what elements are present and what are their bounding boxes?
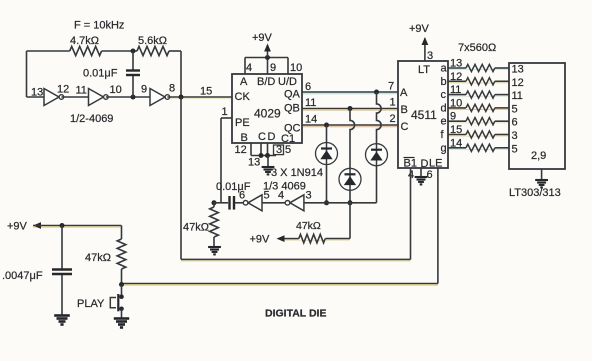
wire left vertical of feedback loop [27, 51, 45, 97]
label QA pin [284, 89, 301, 101]
label pin 11 QB [305, 97, 316, 109]
label segment d [441, 102, 447, 114]
label pin 6 [305, 81, 311, 93]
wire QC pin14 to 4511 C [302, 124, 398, 126]
svg-text:4029: 4029 [254, 107, 281, 121]
label 0.01uF C1 [83, 68, 118, 80]
label 4029 [254, 107, 281, 121]
label PLAY [77, 298, 105, 310]
label segment g [441, 142, 447, 154]
switch S1 PLAY pushbutton [110, 294, 123, 311]
ground under 4511 [415, 177, 428, 184]
label display pin 5 [512, 143, 518, 155]
svg-text:3: 3 [512, 130, 518, 142]
node jam bracket junction 2 [265, 153, 270, 158]
svg-text:B: B [401, 104, 408, 116]
wire D pin to ground [420, 168, 422, 176]
label pin 1 [222, 106, 228, 118]
label pin 9 4511 right [450, 111, 456, 123]
label pin 6 inv [239, 190, 245, 202]
power +9V stem over 4029 [264, 44, 271, 58]
label pin 11 [76, 85, 87, 97]
wire switch to ground [121, 309, 123, 318]
label C 4511 [401, 121, 409, 133]
svg-text:U/D: U/D [278, 76, 297, 88]
svg-text:8: 8 [169, 83, 175, 95]
svg-text:2,9: 2,9 [531, 150, 546, 162]
label segment c [441, 89, 447, 101]
svg-text:3 X 1N914: 3 X 1N914 [271, 167, 323, 179]
wire top feedback rail [27, 50, 70, 52]
label display pin 6 [512, 117, 518, 129]
label C bottom pin [258, 131, 266, 143]
svg-text:11: 11 [512, 90, 523, 102]
node QA diode tap [374, 90, 379, 95]
svg-text:10: 10 [110, 84, 122, 96]
label pin 9 top [270, 62, 276, 74]
label pin 7 [388, 81, 394, 93]
op-amp inverter U1c [150, 89, 170, 106]
svg-text:7x560Ω: 7x560Ω [458, 42, 496, 54]
svg-text:14: 14 [305, 114, 317, 126]
resistor R1 4.7k&#937; [70, 46, 102, 55]
label PE pin [235, 117, 250, 129]
diode D2 1N914 [366, 144, 388, 166]
svg-text:B: B [241, 132, 248, 144]
svg-text:6: 6 [239, 190, 245, 202]
ground under switch [114, 319, 129, 328]
label 47k R3 [183, 222, 209, 234]
svg-text:6: 6 [305, 81, 311, 93]
svg-text:4: 4 [278, 190, 284, 202]
svg-text:QB: QB [284, 103, 300, 115]
wire U1a out to U1b in [61, 96, 89, 98]
node +9V bracket junction [265, 55, 270, 60]
svg-text:12: 12 [235, 144, 247, 156]
capacitor C2 0.01uF [230, 196, 246, 210]
node junction R1/R2/C1 [131, 49, 136, 54]
label pin 12 bottom [235, 144, 247, 156]
svg-text:C: C [258, 131, 266, 143]
svg-text:3: 3 [306, 190, 312, 202]
svg-text:+9V: +9V [252, 32, 273, 44]
svg-text:CK: CK [235, 91, 251, 103]
svg-text:5: 5 [512, 143, 518, 155]
svg-text:.0047μF: .0047μF [2, 270, 43, 282]
label pin 12 [57, 84, 69, 96]
label segment b [441, 76, 447, 88]
label F = 10kHz [74, 20, 124, 32]
label B/D pin [257, 76, 275, 88]
label pin 15 [200, 86, 212, 98]
resistor R9 560&#937; segment e [448, 118, 509, 125]
node C3 tap [60, 223, 65, 228]
wire D3 to AND node [349, 190, 351, 203]
svg-text:0.01μF: 0.01μF [216, 181, 251, 193]
op-amp inverter U1b [89, 89, 109, 106]
label pin 11 4511 right [450, 84, 461, 96]
wire +9V rail left [33, 225, 122, 227]
power +9V arrow mid [250, 234, 285, 246]
label QB pin [284, 103, 300, 115]
node C2/47k junction [212, 200, 217, 205]
label pin 3 LT [427, 50, 433, 62]
svg-text:15: 15 [200, 86, 212, 98]
svg-text:11: 11 [305, 97, 316, 109]
wire display common to ground [541, 169, 543, 179]
node jam bracket junction 1 [259, 153, 264, 158]
label LE pin [429, 158, 442, 170]
svg-text:12: 12 [57, 84, 69, 96]
svg-text:5.6kΩ: 5.6kΩ [138, 35, 167, 47]
node PLAY junction [119, 282, 124, 287]
svg-text:2: 2 [390, 113, 396, 125]
svg-text:6: 6 [427, 169, 433, 181]
label pin 5 inv [264, 190, 270, 202]
svg-text:1: 1 [390, 97, 396, 109]
svg-text:C: C [401, 121, 409, 133]
label pin 4 inv [278, 190, 284, 202]
svg-text:12: 12 [512, 77, 524, 89]
label pin 14 QC [305, 114, 317, 126]
label pin 10 [110, 84, 122, 96]
label DIGITAL DIE [265, 308, 326, 320]
wire LE latch line [122, 168, 438, 284]
label 5.6k&#937; [138, 35, 167, 47]
label pin 4 [246, 62, 252, 74]
svg-text:B/D: B/D [257, 76, 275, 88]
label pin 9 [141, 84, 147, 96]
svg-text:e: e [441, 116, 447, 128]
svg-text:F = 10kHz: F = 10kHz [74, 20, 124, 32]
wire 4029 bottom jam bracket [251, 143, 276, 156]
power label +9V left [7, 221, 28, 233]
wire between R1 and R2 [102, 50, 137, 52]
node QC diode tap [324, 123, 329, 128]
svg-text:g: g [441, 142, 447, 154]
power +9V stem over 4511 [422, 37, 429, 61]
label display pin 5 [512, 103, 518, 115]
svg-text:9: 9 [141, 84, 147, 96]
svg-text:a: a [441, 63, 448, 75]
label display pin 11 [512, 90, 523, 102]
resistor R11 560&#937; segment g [448, 144, 509, 151]
IC U2 4029 box [232, 74, 302, 143]
svg-text:LT: LT [418, 64, 430, 76]
wire AND bus to D2 corner [304, 202, 377, 204]
svg-text:LT303/313: LT303/313 [509, 187, 561, 199]
wire U1c out to CK [167, 96, 232, 98]
power +9V arrow left [33, 222, 41, 229]
power label +9V over 4029 [252, 32, 273, 44]
label pin 15 4511 right [450, 124, 462, 136]
wire AND node down to 47k pullup [349, 203, 351, 239]
wire jam bracket to ground [267, 156, 269, 167]
ground under display [535, 180, 548, 187]
resistor R10 47k [117, 226, 126, 285]
display DS1 box [509, 63, 565, 169]
label B1 bar pin [404, 158, 417, 170]
node AND junction at D1 [324, 200, 329, 205]
label LT pin [418, 64, 430, 76]
capacitor C3 .0047uF [52, 226, 72, 316]
resistor R10 560&#937; segment f [448, 131, 509, 138]
wire QB pin11 to 4511 B [302, 108, 398, 110]
label pin 2 left [390, 113, 396, 125]
label pin 5 bottom [285, 144, 291, 156]
label B bottom pin [241, 132, 248, 144]
svg-text:5: 5 [512, 103, 518, 115]
label pin 8 [169, 83, 175, 95]
wire PE pin 1 [221, 118, 232, 203]
label QC pin [284, 123, 301, 135]
svg-text:47kΩ: 47kΩ [183, 222, 209, 234]
label segment e [441, 116, 447, 128]
resistor R5 560&#937; segment a [448, 64, 509, 71]
svg-text:47kΩ: 47kΩ [296, 220, 321, 232]
op-amp inverter U1a [44, 89, 64, 106]
diode D3 1N914 [339, 168, 361, 190]
svg-text:c: c [441, 89, 447, 101]
label 47k R4 [296, 220, 321, 232]
wire B1 feedback line [181, 97, 411, 259]
resistor R8 560&#937; segment d [448, 104, 509, 111]
svg-text:0.01μF: 0.01μF [83, 68, 118, 80]
svg-text:+9V: +9V [250, 234, 271, 246]
label display pin 13 [512, 64, 524, 76]
wire U1d to U1e [262, 202, 288, 204]
wire U1b out to U1c in [106, 96, 150, 98]
diode D1 1N914 [316, 143, 338, 165]
svg-text:5: 5 [264, 190, 270, 202]
wire QA tap down to D2 with hops [377, 92, 382, 144]
label 4.7k&#937; [70, 35, 99, 47]
power label +9V over 4511 [409, 23, 430, 35]
wire node to C2 [214, 202, 228, 204]
svg-text:B1: B1 [404, 158, 417, 170]
node QB diode tap [348, 106, 353, 111]
svg-text:1/2-4069: 1/2-4069 [70, 113, 113, 125]
svg-text:PE: PE [235, 117, 250, 129]
node junction C1 bottom [131, 95, 136, 100]
svg-text:+9V: +9V [409, 23, 430, 35]
resistor R7 560&#937; segment c [448, 91, 509, 98]
ground under 4029 [262, 167, 275, 174]
label pin 14 4511 right [450, 137, 462, 149]
label 47k R10 [85, 252, 111, 264]
wire QA pin6 to 4511 A [302, 91, 398, 93]
label C1 bottom pin [281, 133, 295, 145]
label U/D pin [278, 76, 297, 88]
label D pin 4511 [421, 158, 429, 170]
label 0.01uF C2 [216, 181, 251, 193]
label pin 13 4511 right [450, 58, 462, 70]
label pin 10 4511 right [450, 97, 462, 109]
op-amp inverter U1e [285, 195, 304, 211]
svg-text:11: 11 [76, 85, 87, 97]
label pin 13 bottom [248, 157, 260, 169]
wire D2 to AND node corner [376, 166, 378, 203]
svg-text:3: 3 [276, 144, 282, 156]
label .0047uF [2, 270, 43, 282]
label pin 1 left [390, 97, 396, 109]
wire node to switch [121, 285, 123, 297]
svg-text:PLAY: PLAY [77, 298, 105, 310]
svg-text:D: D [268, 131, 276, 143]
resistor R2 5.6k&#937; [137, 46, 169, 55]
label 4511 [411, 108, 437, 122]
svg-text:A: A [400, 87, 408, 99]
label A 4511 [400, 87, 408, 99]
ground under C3 [54, 316, 70, 325]
resistor R3 47k vertical [210, 203, 219, 246]
svg-text:13: 13 [248, 157, 260, 169]
svg-text:4.7kΩ: 4.7kΩ [70, 35, 99, 47]
label pin 10 top [290, 62, 302, 74]
resistor R6 560&#937; segment b [448, 78, 509, 85]
svg-text:QA: QA [284, 89, 301, 101]
label LT303/313 [509, 187, 561, 199]
wire right vertical to pin8 node [180, 51, 182, 97]
label display pin 3 [512, 130, 518, 142]
svg-text:3: 3 [427, 50, 433, 62]
label segment f [441, 129, 445, 141]
wire 4029 top bracket [245, 58, 288, 75]
svg-text:b: b [441, 76, 447, 88]
label 1/2-4069 [70, 113, 113, 125]
label pin 13 [31, 87, 43, 99]
label pin 3 inv [306, 190, 312, 202]
label pin 3 boxed [274, 144, 284, 156]
svg-text:+9V: +9V [7, 221, 28, 233]
label pins 2,9 [531, 150, 546, 162]
node junction clock/feedback [179, 95, 184, 100]
wire QB tap down to D3 with hop [350, 109, 355, 169]
svg-text:DIGITAL DIE: DIGITAL DIE [265, 308, 326, 320]
wire D1 to AND node [326, 165, 328, 203]
svg-text:d: d [441, 102, 447, 114]
op-amp inverter U1d [243, 195, 262, 211]
svg-text:LE: LE [429, 158, 442, 170]
svg-text:13: 13 [31, 87, 43, 99]
svg-text:4511: 4511 [411, 108, 437, 122]
svg-text:5: 5 [285, 144, 291, 156]
node AND junction at D3 [348, 200, 353, 205]
label segment a [441, 63, 448, 75]
label D bottom pin [268, 131, 276, 143]
label 7x560&#937; [458, 42, 496, 54]
ground under R3 [208, 247, 221, 254]
wire R2 to right vertical [169, 50, 181, 52]
svg-text:47kΩ: 47kΩ [85, 252, 111, 264]
svg-text:A: A [240, 76, 248, 88]
wire QC tap down to D1 [326, 125, 328, 143]
label CK pin [235, 91, 251, 103]
label A pin [240, 76, 248, 88]
label pin 4 bottom [408, 169, 414, 181]
svg-text:1: 1 [222, 106, 228, 118]
label B 4511 [401, 104, 408, 116]
capacitor C1 0.01uF [126, 51, 140, 97]
svg-text:9: 9 [270, 62, 276, 74]
resistor R4 47k pullup [284, 234, 351, 243]
label pin 6 bottom [427, 169, 433, 181]
IC U3 4511 box [398, 61, 448, 168]
svg-text:10: 10 [290, 62, 302, 74]
label display pin 12 [512, 77, 524, 89]
svg-text:6: 6 [512, 117, 518, 129]
label 3 X 1N914 [271, 167, 323, 179]
svg-text:7: 7 [388, 81, 394, 93]
label pin 12 4511 right [450, 71, 462, 83]
label 1/3 4069 [263, 181, 306, 193]
svg-text:4: 4 [246, 62, 252, 74]
svg-text:13: 13 [512, 64, 524, 76]
